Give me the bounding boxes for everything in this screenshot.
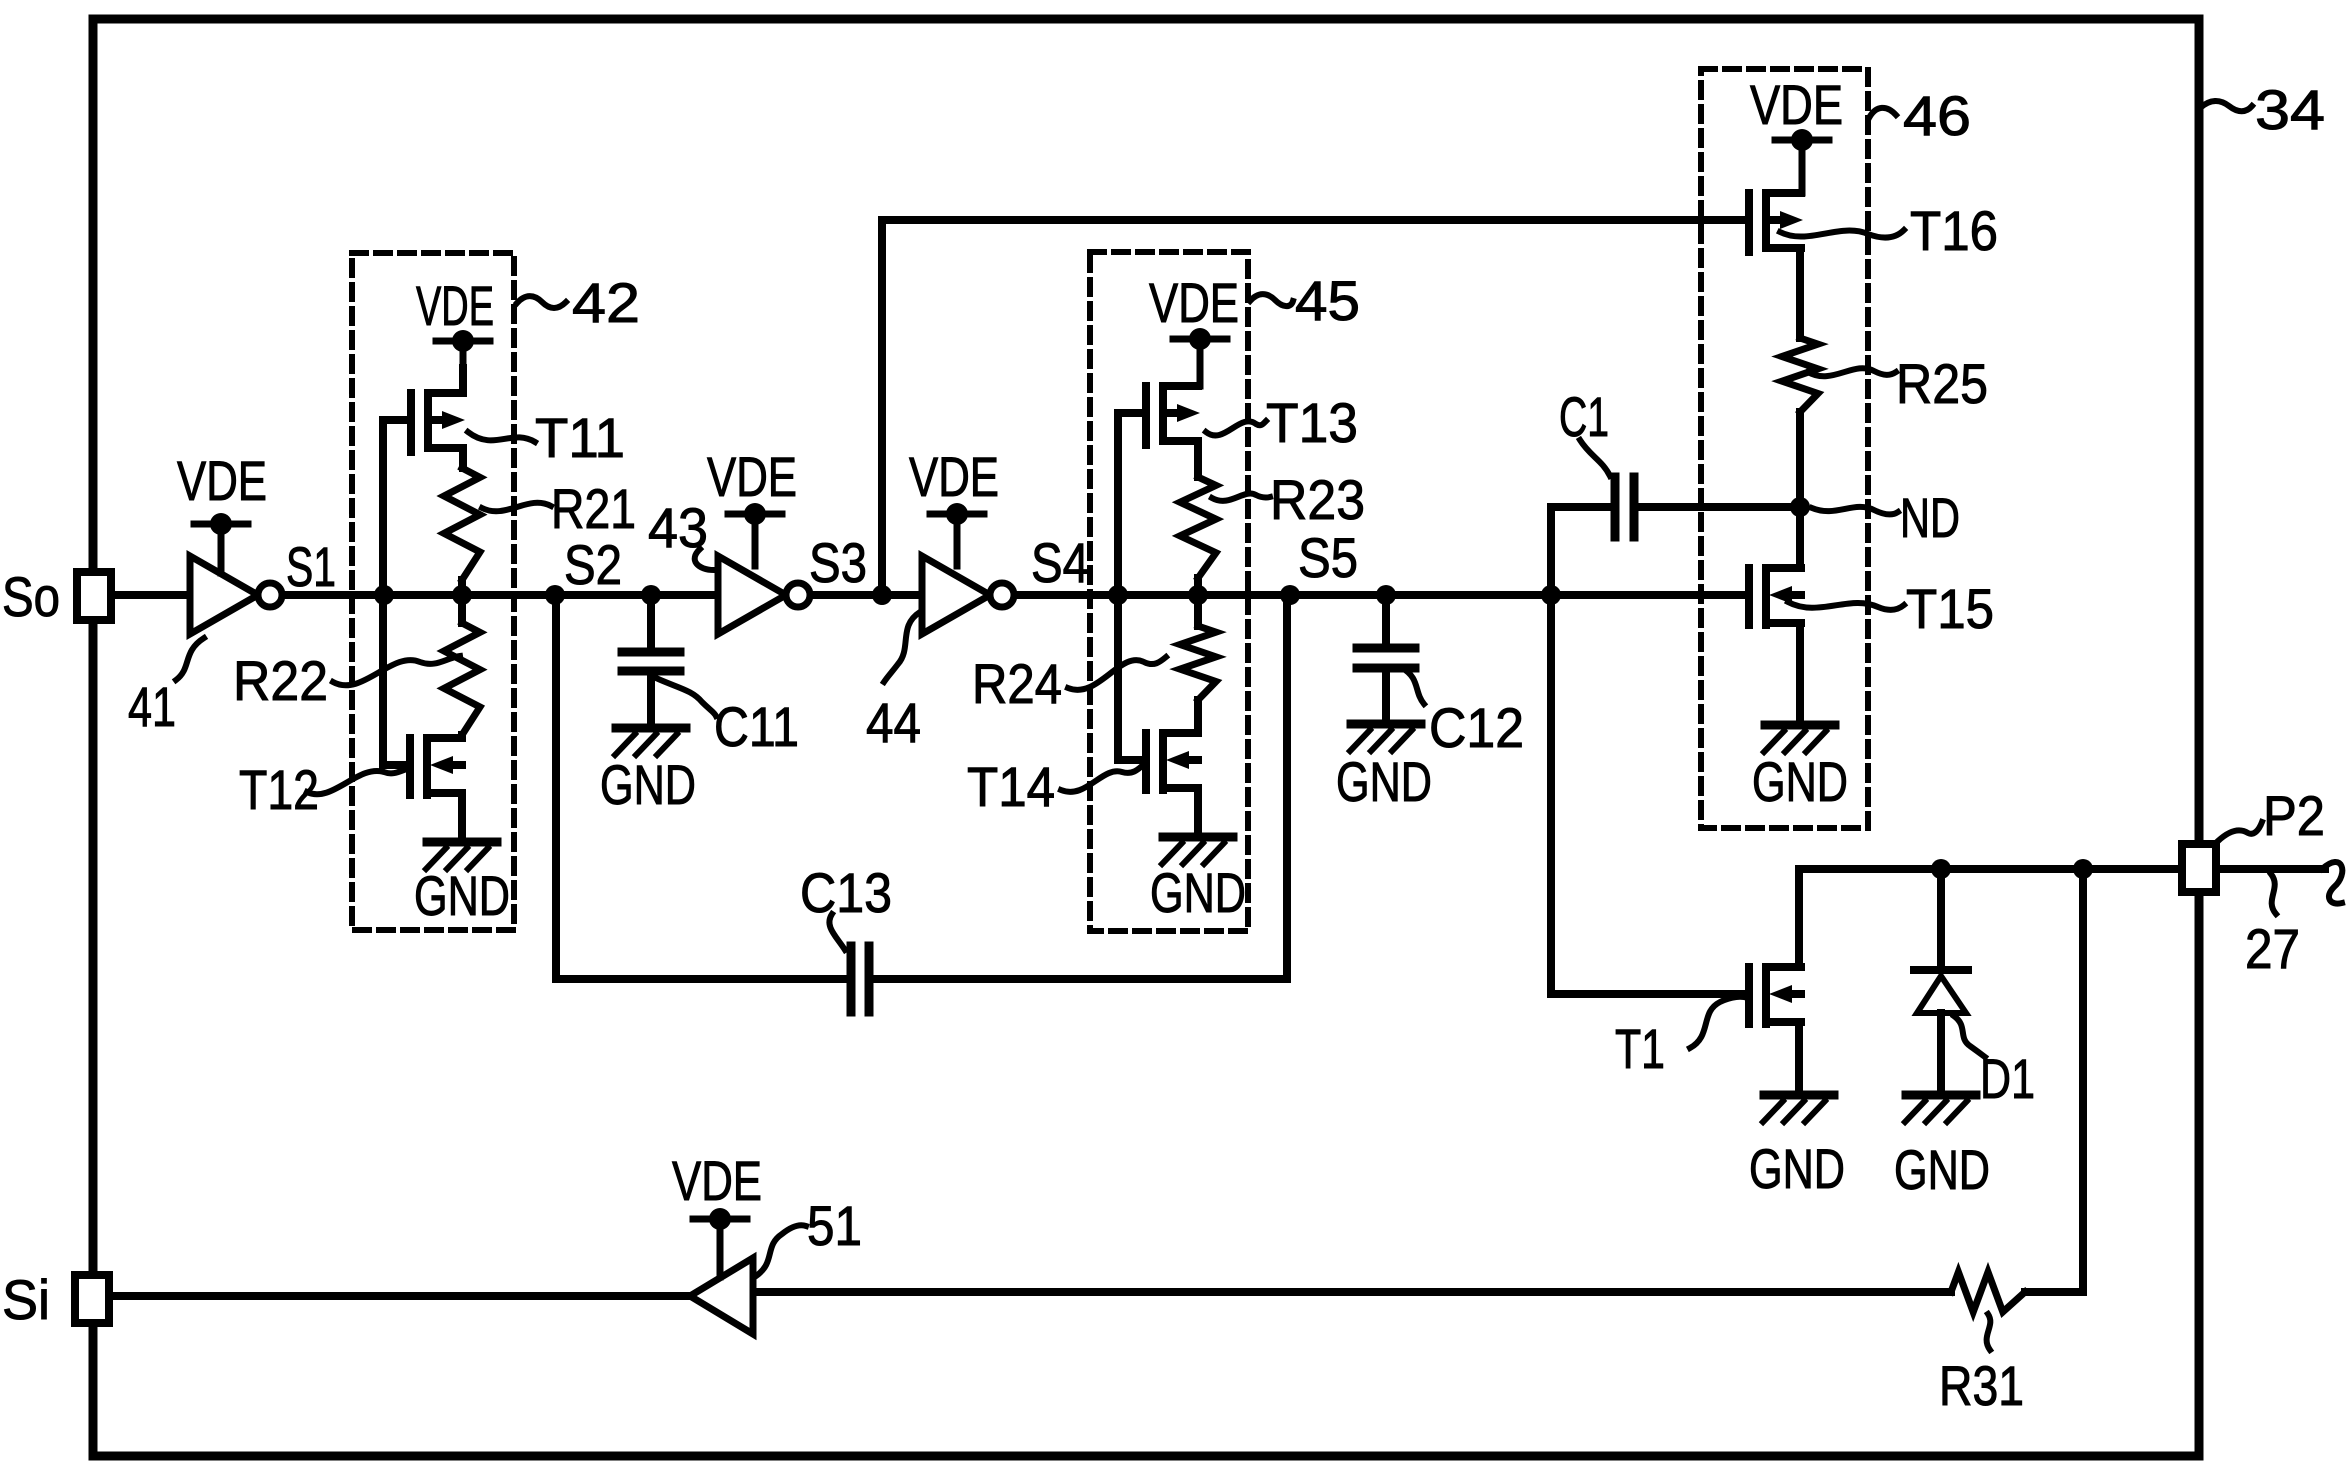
svg-text:S3: S3 <box>809 531 867 594</box>
svg-text:41: 41 <box>128 675 176 738</box>
svg-text:GND: GND <box>414 864 510 927</box>
svg-text:T15: T15 <box>1906 577 1994 640</box>
svg-text:27: 27 <box>2245 917 2300 980</box>
svg-text:VDE: VDE <box>1149 271 1239 334</box>
svg-text:R22: R22 <box>233 649 328 712</box>
svg-text:GND: GND <box>1749 1137 1845 1200</box>
svg-text:P2: P2 <box>2263 784 2325 847</box>
svg-text:C13: C13 <box>800 861 892 924</box>
svg-text:VDE: VDE <box>672 1149 762 1212</box>
svg-text:ND: ND <box>1900 486 1960 549</box>
svg-text:GND: GND <box>1150 861 1246 924</box>
svg-text:R31: R31 <box>1939 1354 2024 1417</box>
svg-text:T11: T11 <box>535 406 625 469</box>
svg-text:51: 51 <box>807 1194 862 1257</box>
svg-text:VDE: VDE <box>416 274 494 337</box>
svg-text:GND: GND <box>1336 750 1432 813</box>
svg-text:C1: C1 <box>1559 385 1609 448</box>
svg-text:T1: T1 <box>1615 1017 1665 1080</box>
svg-text:46: 46 <box>1903 84 1971 147</box>
svg-text:S5: S5 <box>1298 526 1358 589</box>
svg-text:R25: R25 <box>1896 352 1988 415</box>
svg-text:T14: T14 <box>967 755 1055 818</box>
svg-text:R24: R24 <box>972 652 1062 715</box>
svg-text:T16: T16 <box>1910 199 1998 262</box>
svg-text:45: 45 <box>1295 269 1360 332</box>
svg-text:T13: T13 <box>1266 391 1358 454</box>
svg-text:S4: S4 <box>1031 531 1089 594</box>
svg-text:44: 44 <box>866 691 921 754</box>
svg-text:VDE: VDE <box>177 449 267 512</box>
svg-text:VDE: VDE <box>909 445 999 508</box>
svg-text:GND: GND <box>1894 1138 1990 1201</box>
svg-text:GND: GND <box>600 753 696 816</box>
svg-text:So: So <box>2 565 60 628</box>
svg-text:VDE: VDE <box>707 445 797 508</box>
svg-text:S2: S2 <box>564 533 622 596</box>
svg-text:C12: C12 <box>1429 696 1524 759</box>
svg-text:42: 42 <box>572 271 640 334</box>
svg-text:34: 34 <box>2255 78 2325 141</box>
svg-text:R23: R23 <box>1270 468 1365 531</box>
svg-text:S1: S1 <box>286 535 336 598</box>
svg-text:GND: GND <box>1752 750 1848 813</box>
svg-text:VDE: VDE <box>1750 73 1843 136</box>
svg-text:R21: R21 <box>551 477 636 540</box>
svg-text:C11: C11 <box>714 695 799 758</box>
svg-text:Si: Si <box>2 1268 50 1331</box>
